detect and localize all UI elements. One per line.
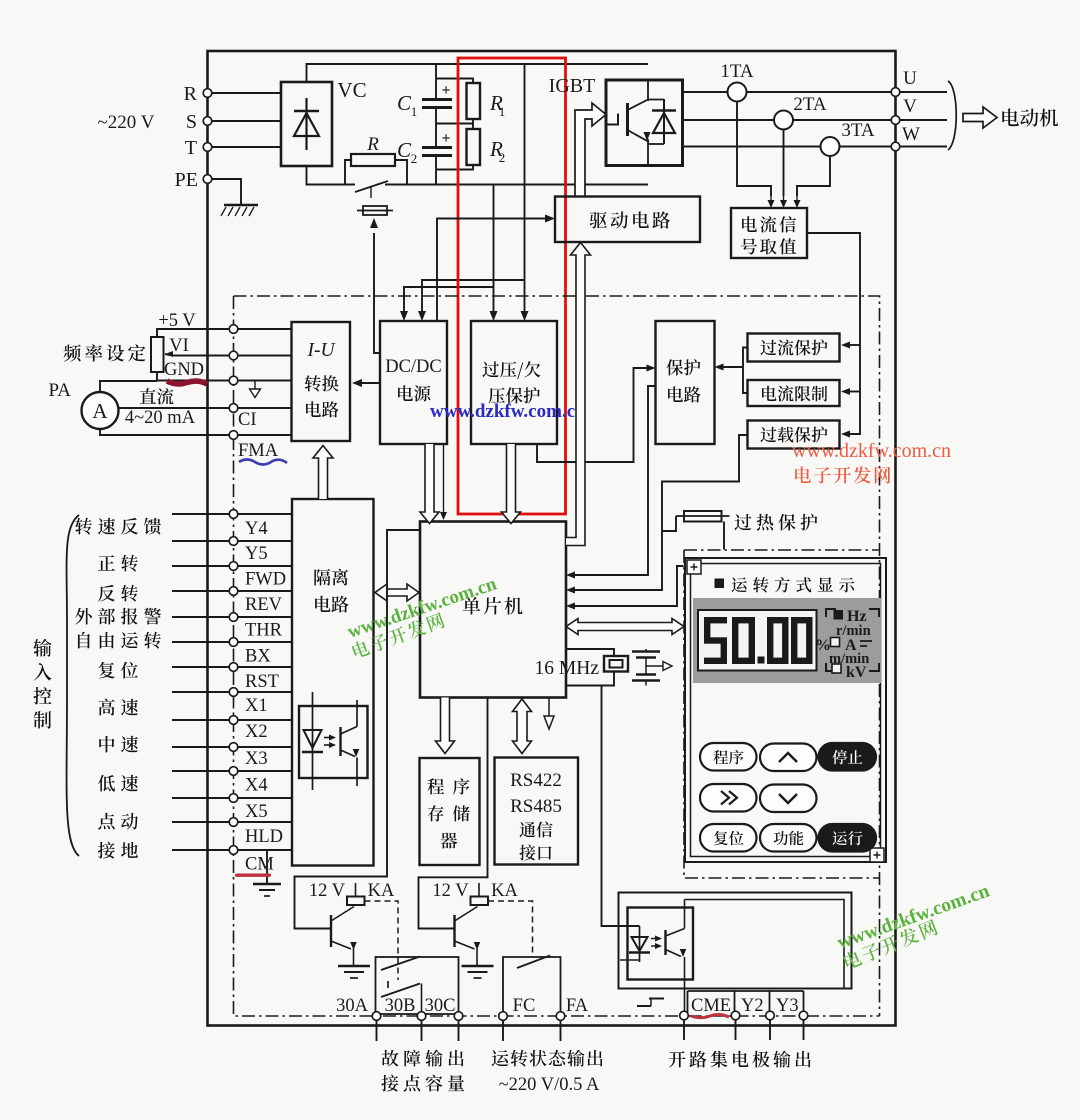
svg-text:www.dzkfw.com.cn: www.dzkfw.com.cn (430, 401, 586, 422)
label Y4 (245, 519, 268, 539)
terminal VI (165, 336, 238, 360)
diode in VC (294, 98, 319, 150)
label X3 (245, 749, 268, 769)
wire crystal return (566, 672, 614, 686)
wire R to rectifier (212, 92, 281, 94)
terminal X4 (229, 767, 238, 776)
terminal FA (556, 996, 589, 1020)
crystal 16MHz (604, 656, 628, 672)
wire T to rectifier (212, 146, 281, 148)
label 正转 (98, 555, 138, 572)
svg-text:PA: PA (48, 380, 71, 401)
label X4 (245, 776, 268, 796)
wire DCDC to drive (437, 215, 555, 322)
wire meter to GND (100, 381, 157, 392)
svg-text:30A: 30A (336, 996, 369, 1016)
terminal X2 (229, 716, 238, 725)
capacitor C1 (397, 64, 452, 147)
block current limit (748, 380, 840, 406)
optocoupler U2 light arrows (651, 936, 662, 950)
svg-text:VC: VC (337, 78, 366, 102)
arrow into current limit (841, 388, 860, 395)
wire DC/DC input A (418, 280, 525, 321)
optocoupler U1 light arrows (324, 735, 336, 749)
wire ovp to protect circuit (537, 365, 656, 463)
label frequency set (63, 344, 145, 361)
svg-text:W: W (902, 124, 920, 145)
arrow isolation-MCU bidirectional (375, 584, 419, 601)
terminal FMA (229, 431, 279, 461)
current transformer 3TA (821, 120, 875, 156)
dashed link KA2 (488, 901, 533, 957)
wire W phase (683, 146, 896, 148)
watermark green br line2 (842, 918, 939, 970)
svg-text:4~20 mA: 4~20 mA (125, 408, 196, 428)
red underline CM (235, 874, 271, 877)
svg-text:12 V: 12 V (309, 881, 346, 901)
svg-text:2: 2 (499, 150, 506, 165)
label 自由运转 (78, 632, 161, 649)
svg-text:V: V (903, 96, 917, 117)
svg-text:R: R (184, 83, 198, 105)
svg-text:PE: PE (175, 169, 198, 191)
wire DC- bus right (385, 184, 648, 186)
block overload protect (748, 421, 840, 449)
terminal +5V (158, 311, 237, 333)
optocoupler U1 transistor (341, 700, 360, 786)
terminal X5 (229, 794, 238, 803)
terminal CI (229, 404, 256, 430)
label 反转 (98, 585, 138, 602)
label Y5 (245, 544, 268, 564)
svg-text:Y4: Y4 (245, 519, 268, 539)
svg-text:DC/DC: DC/DC (385, 357, 442, 377)
scribble under GND (167, 381, 207, 384)
svg-text:GND: GND (164, 360, 204, 380)
arrow to motor (963, 107, 997, 128)
terminal CM (229, 846, 238, 855)
unit brackets (826, 609, 879, 671)
terminal X3 (229, 743, 238, 752)
lead run 560.5 (560, 1021, 562, 1042)
wire protect bracket (715, 348, 748, 394)
wire PE to ground (212, 179, 241, 205)
wire fuse left (662, 516, 676, 531)
label DC 4-20mA (125, 388, 196, 428)
dashed link KA1 (365, 901, 399, 980)
wire emitter to CME (684, 957, 686, 1011)
arrow MCU to memory (436, 698, 455, 754)
label ~220 V (98, 112, 155, 133)
main enclosure border (208, 51, 896, 1026)
open collector block (619, 893, 852, 989)
svg-text:BX: BX (245, 647, 271, 667)
wire U phase (683, 91, 896, 93)
terminal REV (229, 587, 238, 596)
lead run 503 (502, 1021, 504, 1042)
resistor R1 (436, 79, 505, 120)
wire meter to FMA (100, 429, 229, 435)
control board dash-dot boundary (234, 296, 880, 1016)
block current signal pickup (731, 208, 807, 258)
label 高速 (98, 699, 138, 716)
terminal 30A (336, 996, 381, 1020)
wire input BX (172, 641, 292, 643)
svg-text:30B: 30B (385, 996, 416, 1016)
contact 30C-30A (381, 981, 422, 1014)
panel title (715, 577, 855, 592)
relay KA2 driver (432, 881, 518, 978)
svg-text:X4: X4 (245, 776, 268, 796)
svg-text:CI: CI (238, 410, 257, 430)
svg-text:+: + (441, 82, 450, 99)
wire input Y5 (172, 540, 292, 542)
svg-text:T: T (185, 137, 197, 159)
label 点动 (98, 813, 138, 830)
label 低速 (98, 775, 138, 792)
label percent (815, 637, 831, 654)
wire CI to IU (238, 407, 292, 409)
wire MCU to crystal (566, 649, 614, 656)
terminal 30C (425, 996, 463, 1020)
svg-text:FWD: FWD (245, 570, 286, 590)
block protect circuit (656, 321, 715, 444)
terminal S (186, 111, 212, 133)
terminal Y3 (766, 1011, 775, 1020)
terminal RST (229, 663, 238, 672)
block MCU (420, 522, 566, 698)
ground CM (253, 884, 281, 896)
button program (700, 743, 757, 771)
panel display area (693, 598, 881, 683)
wire DC+ bus (307, 64, 649, 82)
block over/under voltage protect (471, 321, 557, 444)
optocoupler U2 transistor (666, 900, 687, 958)
block isolation circuit (292, 499, 374, 866)
label X2 (245, 722, 268, 742)
resistor R2 (436, 119, 505, 170)
contact FC (517, 956, 550, 969)
wire V phase (683, 119, 896, 121)
wire current pickup to protectors (807, 233, 860, 438)
arrow MCU to drive circuit (566, 243, 591, 546)
svg-text:X1: X1 (245, 696, 268, 716)
digits 50.00 (704, 617, 813, 664)
optocoupler U1 LED (302, 692, 323, 790)
button run (819, 824, 877, 852)
terminal V (891, 96, 917, 124)
unit r/min (836, 623, 871, 639)
unit Hz (834, 608, 867, 625)
wire U out (900, 91, 947, 93)
terminal PE (175, 169, 212, 191)
analog ground marker (250, 381, 261, 398)
svg-text:Y5: Y5 (245, 544, 268, 564)
unit m/min (829, 651, 869, 667)
svg-text:CM: CM (245, 855, 274, 875)
block DC/DC supply (380, 321, 447, 444)
wire input FWD (172, 565, 292, 567)
wire input Y4 (172, 513, 292, 515)
label 转速反馈 (75, 518, 161, 535)
wire input X1 (172, 691, 292, 693)
label fault output (381, 1050, 464, 1092)
label CM (245, 855, 274, 875)
button stop (819, 743, 877, 771)
highlight red rectangle (458, 58, 566, 514)
wire input RST (172, 666, 292, 668)
label open collector output (669, 1051, 811, 1068)
wire overload to mcu (566, 435, 748, 594)
arrow drive to IGBT (575, 103, 606, 196)
ammeter PA (48, 380, 118, 429)
wire MCU to relay2 (419, 698, 488, 929)
wire fuse right to panel (723, 522, 725, 550)
svg-text:KA: KA (368, 881, 395, 901)
operator panel dash-dot boundary (684, 550, 880, 878)
lead fault 376.5 (376, 1021, 378, 1042)
panel corner TL (687, 560, 701, 574)
wire DC mid sense (490, 185, 498, 322)
wire input HLD (172, 821, 292, 823)
watermark green mid line2 (351, 611, 446, 659)
contactor coil symbol (357, 206, 393, 215)
svg-text:FC: FC (513, 996, 536, 1016)
wire input X5 (172, 797, 292, 799)
svg-text:1: 1 (499, 104, 506, 119)
button function (760, 824, 817, 852)
terminal 30B (385, 996, 426, 1020)
svg-text:~220 V: ~220 V (98, 112, 155, 133)
wire input X3 (172, 746, 292, 748)
watermark red line1 (792, 440, 951, 462)
svg-text:16 MHz: 16 MHz (535, 658, 600, 679)
arrow IU from isolation (313, 446, 333, 500)
svg-text:I-U: I-U (306, 340, 336, 361)
unit A (831, 637, 873, 654)
relay KA1 driver (309, 881, 395, 978)
wire input THR (172, 616, 292, 618)
label 接地 (98, 842, 138, 859)
svg-text:2TA: 2TA (793, 94, 827, 115)
svg-text:C: C (397, 91, 412, 115)
svg-text:X5: X5 (245, 802, 268, 822)
svg-text:12 V: 12 V (432, 881, 469, 901)
label run status output (492, 1050, 603, 1095)
arrow into overcurrent (841, 342, 860, 349)
brace input group (67, 515, 79, 856)
wire input REV (172, 590, 292, 592)
terminal R (184, 83, 212, 105)
terminal Y4 (229, 510, 238, 519)
diode in IGBT (648, 99, 676, 144)
wire DCDC signal to MCU (440, 444, 447, 520)
arrow MCU-panel bidirectional (566, 619, 684, 635)
button up (760, 744, 817, 772)
svg-text:X2: X2 (245, 722, 268, 742)
terminal FWD (229, 562, 238, 571)
optocoupler U2 LED (620, 926, 650, 962)
brace motor (948, 81, 956, 150)
lead fault 458.5 (458, 1021, 460, 1042)
svg-text:R: R (366, 134, 379, 155)
svg-text:~220 V/0.5 A: ~220 V/0.5 A (499, 1075, 600, 1095)
resistor R charging (345, 134, 407, 185)
block overcurrent protect (748, 334, 840, 362)
svg-text:www.dzkfw.com.cn: www.dzkfw.com.cn (792, 440, 951, 462)
svg-text:C: C (397, 138, 412, 162)
arrow DCDC to IU (352, 379, 380, 387)
svg-text:3TA: 3TA (841, 120, 875, 141)
lead oc 803.5 (803, 1020, 805, 1040)
panel frame (685, 558, 886, 862)
wire MCU to relay1 (295, 530, 421, 929)
block RS422 interface (495, 758, 579, 865)
rectifier VC (281, 78, 367, 166)
label 复位 (98, 662, 138, 679)
lead oc 770 (769, 1020, 771, 1040)
svg-text:Y2: Y2 (741, 996, 764, 1016)
terminal GND (164, 360, 238, 385)
arrow MCU-RS422 bidirectional (513, 699, 532, 754)
svg-text:+5 V: +5 V (158, 311, 196, 331)
svg-text:2: 2 (411, 151, 418, 166)
svg-text:+: + (441, 130, 450, 147)
svg-text:A: A (92, 399, 108, 423)
svg-text:IGBT: IGBT (549, 75, 596, 97)
watermark green mid line1 (345, 573, 500, 642)
wire 3TA sense (797, 156, 830, 196)
wire cap midpoint (646, 658, 672, 675)
svg-text:REV: REV (245, 595, 283, 615)
wire GND to IU (238, 380, 292, 382)
button shift (700, 784, 757, 812)
terminal CME (680, 1011, 689, 1020)
svg-text:FA: FA (566, 996, 589, 1016)
scribble under FMA (239, 460, 287, 465)
svg-text:FMA: FMA (238, 441, 279, 461)
lead oc 684 (683, 1020, 685, 1040)
wire FMA to IU (238, 434, 292, 436)
optocoupler U2 box (628, 908, 694, 980)
wire meter to CI (119, 407, 230, 409)
optocoupler U1 box (299, 706, 368, 778)
wire W out (900, 146, 947, 148)
fault contact box (376, 957, 459, 1014)
wire S to rectifier (212, 120, 281, 122)
wire input CM (172, 849, 292, 851)
arrows into current block (768, 196, 801, 208)
terminal FC (499, 996, 536, 1020)
svg-text:1TA: 1TA (720, 61, 754, 82)
button down (760, 785, 817, 813)
terminal THR (229, 613, 238, 622)
capacitor load C bottom (632, 675, 660, 686)
wire DC+ sense (521, 64, 529, 321)
wire +5V to IU (238, 328, 292, 330)
lead fault 421.5 (421, 1021, 423, 1042)
block drive circuit (555, 197, 700, 243)
run contact box (503, 957, 561, 1014)
panel LCD window (698, 610, 817, 671)
svg-text:HLD: HLD (245, 827, 283, 847)
terminal Y5 (229, 537, 238, 546)
wire VI to IU (238, 355, 292, 357)
label motor (1002, 109, 1058, 127)
block program memory (420, 758, 480, 865)
svg-text:KA: KA (491, 881, 518, 901)
capacitor load C top (632, 649, 660, 658)
terminal W (891, 124, 920, 151)
svg-text:30C: 30C (425, 996, 456, 1016)
svg-text:RS485: RS485 (510, 796, 562, 817)
capacitor C2 (397, 130, 452, 185)
label 16 MHz (535, 658, 600, 679)
wire protect to mcu (566, 386, 656, 579)
svg-text:RST: RST (245, 672, 279, 692)
contact 30B-30A (381, 957, 420, 971)
label input control vertical (33, 639, 51, 729)
wire input X2 (172, 719, 292, 721)
arrow DCDC to MCU (420, 444, 439, 524)
block I-U converter (292, 322, 351, 441)
terminal U (891, 68, 917, 96)
label 中速 (99, 736, 138, 753)
label THR (245, 621, 283, 641)
svg-text:1: 1 (411, 104, 418, 119)
IGBT symbol (606, 80, 664, 166)
wire panel to mcu (566, 566, 684, 610)
button reset (700, 824, 757, 852)
wire DC/DC input B (400, 287, 494, 321)
label REV (245, 595, 283, 615)
terminal BX (229, 638, 238, 647)
label RST (245, 672, 279, 692)
panel corner BR (870, 848, 884, 862)
red underline CME (691, 1015, 729, 1018)
terminal Y3b (799, 1011, 808, 1020)
wire coil drive from DC/DC (370, 218, 380, 353)
label X1 (245, 696, 268, 716)
watermark blue (430, 401, 586, 422)
label 外部报警 (75, 608, 161, 625)
fuse thermal protect (676, 511, 817, 531)
watermark red line2 (795, 466, 890, 483)
arrow OVP to MCU (502, 444, 521, 524)
wire input X4 (172, 770, 292, 772)
wire 2TA sense (783, 130, 785, 197)
output cells CME Y2 Y3 (688, 991, 804, 1016)
wire CM to ground (266, 850, 268, 884)
ground PE (221, 205, 258, 216)
current transformer 2TA (774, 94, 827, 130)
chassis marker (637, 999, 664, 1007)
svg-text:RS422: RS422 (510, 770, 562, 791)
svg-text:X3: X3 (245, 749, 268, 769)
svg-text:S: S (186, 111, 197, 133)
inverter IGBT (549, 75, 683, 166)
terminal T (185, 137, 212, 159)
svg-text:THR: THR (245, 621, 283, 641)
label X5 (245, 802, 268, 822)
terminal X1 (229, 688, 238, 697)
svg-text:CME: CME (691, 996, 731, 1016)
watermark green br line1 (835, 881, 993, 954)
label FWD (245, 570, 286, 590)
wire collector bus (685, 900, 845, 989)
svg-text:kV: kV (846, 664, 867, 681)
switch charging bypass (355, 181, 388, 198)
